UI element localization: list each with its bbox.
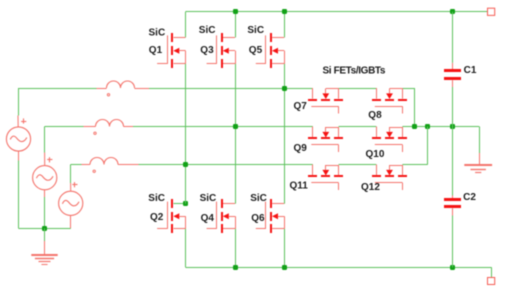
- svg-text:SiC: SiC: [247, 25, 264, 36]
- svg-text:Q12: Q12: [361, 182, 380, 193]
- svg-text:Q7: Q7: [294, 101, 308, 112]
- svg-text:SiC: SiC: [200, 193, 217, 204]
- svg-text:Si FETs/IGBTs: Si FETs/IGBTs: [323, 65, 386, 76]
- svg-text:Q10: Q10: [366, 149, 385, 160]
- svg-text:C2: C2: [463, 192, 476, 203]
- svg-text:Q3: Q3: [200, 45, 214, 56]
- svg-text:Q9: Q9: [294, 143, 308, 154]
- svg-text:C1: C1: [464, 65, 477, 76]
- svg-text:Q11: Q11: [290, 181, 309, 192]
- svg-text:SiC: SiC: [148, 193, 165, 204]
- svg-text:Q2: Q2: [150, 212, 164, 223]
- svg-text:Q1: Q1: [149, 45, 163, 56]
- svg-text:SiC: SiC: [149, 27, 166, 38]
- svg-text:Q5: Q5: [249, 45, 263, 56]
- svg-text:SiC: SiC: [250, 193, 267, 204]
- svg-text:SiC: SiC: [199, 25, 216, 36]
- svg-text:Q6: Q6: [251, 213, 265, 224]
- svg-text:Q8: Q8: [368, 110, 382, 121]
- svg-text:Q4: Q4: [201, 213, 215, 224]
